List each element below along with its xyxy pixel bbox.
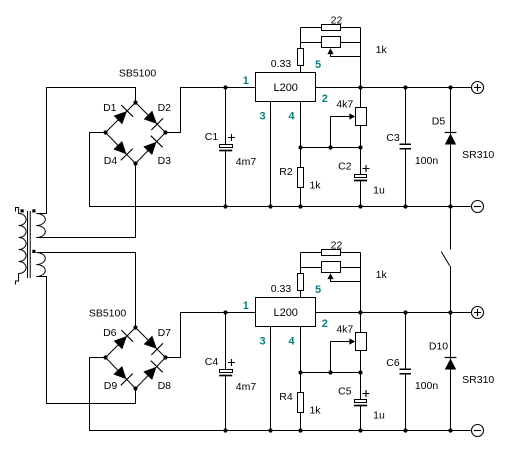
- node: bridge AC bottom: [133, 161, 137, 165]
- svg-text:D3: D3: [158, 155, 172, 167]
- wire: negative rail: [90, 358, 473, 431]
- node: pin 3 at negative rail: [268, 428, 272, 432]
- svg-text:D8: D8: [158, 380, 172, 392]
- svg-text:4m7: 4m7: [236, 156, 257, 168]
- diode D9 (bridge bottom-left): [104, 367, 133, 393]
- svg-text:2: 2: [322, 93, 328, 105]
- transformer T1 secondary 2 winding: [36, 253, 45, 277]
- node: output rail at adj network: [358, 85, 362, 89]
- terminal: minus output: [472, 425, 484, 437]
- node: feedback at C5: [358, 370, 362, 374]
- resistor 0.33 current sense: [271, 253, 304, 298]
- svg-text:SB5100: SB5100: [89, 308, 127, 320]
- svg-text:D4: D4: [104, 155, 118, 167]
- svg-text:C4: C4: [205, 356, 219, 368]
- terminal: plus output: [472, 82, 484, 94]
- svg-text:1k: 1k: [376, 44, 388, 56]
- svg-text:4: 4: [289, 111, 296, 123]
- svg-text:5: 5: [315, 284, 321, 296]
- resistor 22: [301, 239, 361, 255]
- svg-text:1k: 1k: [376, 269, 388, 281]
- node: output rail at C3: [403, 85, 407, 89]
- svg-text:22: 22: [331, 14, 343, 26]
- resistor R4 1k: [279, 373, 321, 431]
- node: feedback at C2: [358, 145, 362, 149]
- wire: secondary to bridge AC bottom: [36, 277, 135, 404]
- svg-text:D5: D5: [432, 116, 446, 128]
- wire: adj network vertical: [360, 253, 362, 313]
- wire: adj network vertical: [360, 28, 362, 88]
- svg-text:R2: R2: [279, 166, 293, 178]
- svg-text:L200: L200: [273, 307, 297, 319]
- capacitor C6 100n: [386, 313, 438, 431]
- svg-text:1k: 1k: [309, 179, 321, 191]
- svg-text:L200: L200: [273, 82, 297, 94]
- svg-text:1: 1: [243, 75, 249, 87]
- svg-text:3: 3: [259, 336, 265, 348]
- wire: output rail pin 2: [316, 87, 473, 89]
- terminal: plus output: [472, 307, 484, 319]
- svg-text:5: 5: [315, 59, 321, 71]
- wire: pin 4 to feedback node: [300, 102, 302, 148]
- wire: pin 3 to negative rail: [270, 102, 272, 207]
- resistor R2 1k: [279, 148, 321, 207]
- diode D4 (bridge bottom-left): [104, 142, 133, 168]
- svg-text:3: 3: [259, 111, 265, 123]
- node: input rail at C4: [223, 310, 227, 314]
- wire: pin 4 to feedback node: [300, 327, 302, 373]
- diode D2 (bridge top-right): [144, 102, 171, 130]
- potentiometer 4k7: [331, 313, 367, 400]
- node: output rail at adj network: [358, 310, 362, 314]
- node: negative rail at C6: [403, 428, 407, 432]
- svg-text:C3: C3: [386, 132, 400, 144]
- potentiometer 4k7: [331, 88, 367, 175]
- node: R4 at negative rail: [298, 428, 302, 432]
- wire: bridge plus to pin 1: [166, 88, 256, 133]
- svg-text:0.33: 0.33: [271, 58, 292, 70]
- regulator U1 L200: [256, 73, 316, 102]
- node: feedback at pin 4: [298, 370, 302, 374]
- node: negative rail at D10: [448, 428, 452, 432]
- svg-text:SR310: SR310: [462, 374, 494, 386]
- regulator U2 L200: [256, 298, 316, 327]
- svg-text:D10: D10: [429, 341, 448, 353]
- diode D6 (bridge top-left): [103, 327, 133, 349]
- svg-text:4k7: 4k7: [336, 323, 353, 335]
- svg-text:0.33: 0.33: [271, 283, 292, 295]
- wire: secondary to bridge AC top: [36, 88, 135, 214]
- node: C5 at negative rail: [358, 428, 362, 432]
- svg-text:4: 4: [289, 336, 296, 348]
- transformer polarity dot: secondary 2: [32, 250, 35, 253]
- wire: output rail pin 2: [316, 312, 473, 314]
- svg-text:C1: C1: [205, 131, 219, 143]
- svg-text:D7: D7: [158, 327, 172, 339]
- wire: secondary to bridge AC bottom: [36, 164, 135, 238]
- resistor 22: [301, 14, 361, 30]
- svg-text:4m7: 4m7: [236, 381, 257, 393]
- node: R2 at negative rail: [298, 204, 302, 208]
- svg-text:D9: D9: [104, 380, 118, 392]
- capacitor C2 1u electrolytic: [338, 161, 385, 207]
- svg-text:4k7: 4k7: [336, 98, 353, 110]
- node: input rail at C1: [223, 85, 227, 89]
- node: pin 3 at negative rail: [268, 204, 272, 208]
- svg-text:1u: 1u: [373, 184, 385, 196]
- transformer T1 secondary 1 winding: [36, 214, 45, 238]
- diode D10 SR310: [429, 313, 495, 431]
- potentiometer 1k: [301, 262, 388, 282]
- svg-text:D6: D6: [103, 327, 117, 339]
- svg-text:100n: 100n: [415, 380, 439, 392]
- node: bridge AC bottom: [133, 386, 137, 390]
- diode D7 (bridge top-right): [144, 327, 171, 355]
- wire: feedback horizontal: [301, 372, 361, 374]
- node: output rail at D10: [448, 310, 452, 314]
- svg-text:C6: C6: [386, 357, 400, 369]
- node: bridge minus: [103, 355, 107, 359]
- wire: pin 3 to negative rail: [270, 327, 272, 431]
- wire: bridge plus to pin 1: [166, 313, 256, 358]
- node: bridge plus: [163, 130, 167, 134]
- svg-text:SB5100: SB5100: [119, 68, 157, 80]
- capacitor C5 1u electrolytic: [338, 386, 385, 431]
- node: feedback at wiper: [328, 145, 332, 149]
- diode D1 (bridge top-left): [103, 102, 133, 124]
- node: feedback at pin 4: [298, 145, 302, 149]
- diode D3 (bridge bottom-right): [144, 136, 171, 167]
- svg-text:1: 1: [243, 300, 249, 312]
- svg-text:100n: 100n: [415, 155, 439, 167]
- svg-text:1k: 1k: [309, 404, 321, 416]
- svg-text:C5: C5: [338, 386, 352, 398]
- capacitor C1 4m7 electrolytic: [205, 88, 257, 207]
- transformer T1 primary winding: [16, 208, 27, 285]
- transformer polarity dot: secondary 1: [32, 209, 35, 212]
- wire: secondary to bridge AC top: [36, 253, 135, 328]
- node: negative rail at D5: [448, 204, 452, 208]
- potentiometer 1k: [301, 37, 388, 57]
- svg-text:1u: 1u: [373, 409, 385, 421]
- diode D8 (bridge bottom-right): [144, 361, 171, 392]
- svg-text:22: 22: [331, 239, 343, 251]
- switch S1 between supplies: [441, 207, 450, 313]
- transformer polarity dot: primary: [21, 209, 24, 212]
- svg-text:D2: D2: [158, 102, 172, 114]
- capacitor C3 100n: [386, 88, 438, 207]
- node: feedback at wiper: [328, 370, 332, 374]
- bridge rectifier B2 SB5100 diamond wiring: [106, 328, 166, 389]
- node: negative rail at C1: [223, 204, 227, 208]
- wire: negative rail: [90, 133, 473, 207]
- capacitor C4 4m7 electrolytic: [205, 313, 257, 431]
- resistor 0.33 current sense: [271, 28, 304, 73]
- wire: feedback horizontal: [301, 147, 361, 149]
- svg-text:D1: D1: [103, 102, 117, 114]
- svg-text:2: 2: [322, 318, 328, 330]
- terminal: minus output: [472, 201, 484, 213]
- node: negative rail at C3: [403, 204, 407, 208]
- svg-text:R4: R4: [279, 391, 293, 403]
- svg-text:SR310: SR310: [462, 149, 494, 161]
- node: output rail at C6: [403, 310, 407, 314]
- bridge rectifier B1 SB5100 diamond wiring: [106, 103, 166, 164]
- node: negative rail at C4: [223, 428, 227, 432]
- svg-text:C2: C2: [338, 161, 352, 173]
- node: bridge AC top: [133, 100, 137, 104]
- node: bridge AC top: [133, 325, 137, 329]
- diode D5 SR310: [432, 88, 495, 207]
- node: C2 at negative rail: [358, 204, 362, 208]
- node: output rail at D5: [448, 85, 452, 89]
- transformer T1 core: [28, 211, 31, 278]
- node: bridge minus: [103, 130, 107, 134]
- node: bridge plus: [163, 355, 167, 359]
